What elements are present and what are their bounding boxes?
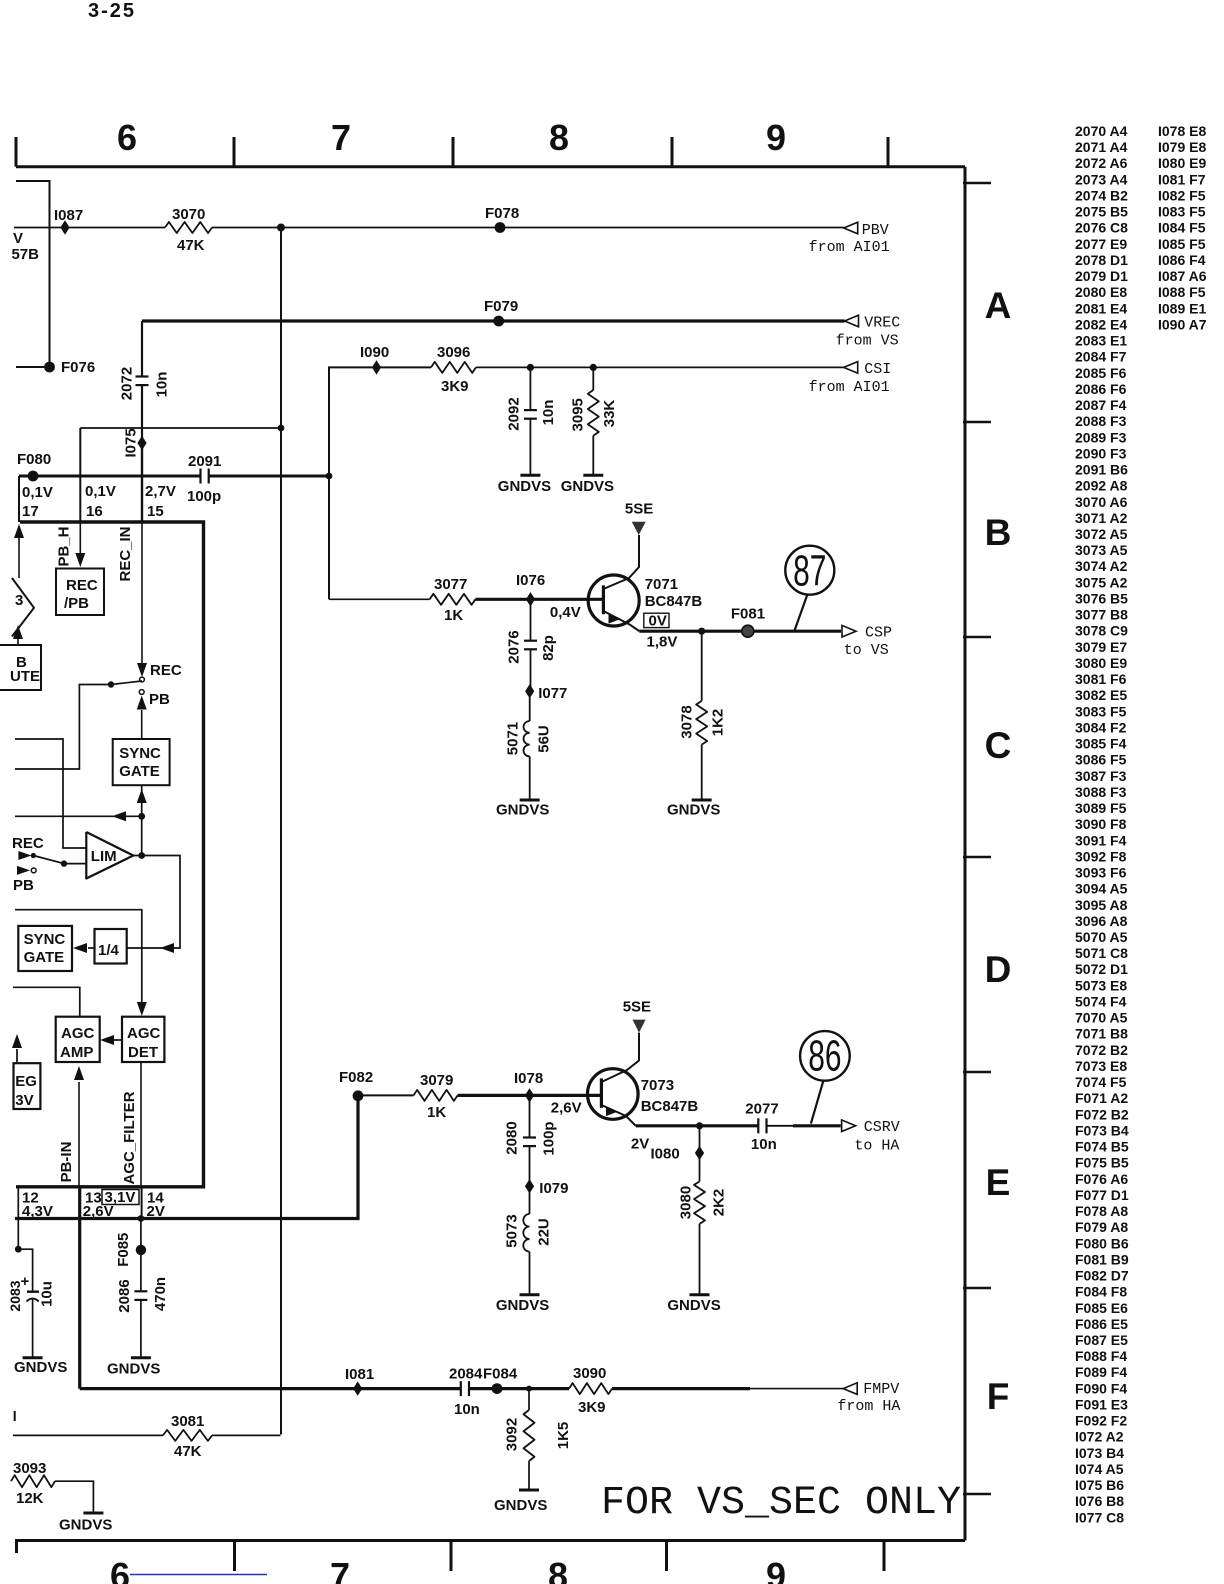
svg-text:to VS: to VS (844, 642, 889, 659)
svg-text:I082 F5: I082 F5 (1158, 187, 1206, 203)
svg-text:1,8V: 1,8V (647, 634, 678, 651)
svg-text:10n: 10n (540, 400, 557, 426)
svg-text:2091: 2091 (188, 453, 221, 470)
capacitor 2072 10n (141, 321, 143, 377)
resistor 3079 1K (414, 1090, 458, 1101)
wire pin15 REC_IN (141, 443, 143, 522)
svg-text:I075 B6: I075 B6 (1075, 1477, 1124, 1493)
wire SYNC GATE input riser (141, 785, 143, 855)
resistor 3078 1K2 (701, 631, 703, 701)
svg-text:5SE: 5SE (625, 501, 653, 518)
svg-text:F071 A2: F071 A2 (1075, 1090, 1128, 1106)
svg-text:from HA: from HA (837, 1398, 900, 1415)
test point F084 (492, 1383, 503, 1394)
test point F076 (44, 362, 55, 373)
capacitor 2077 10n (757, 1118, 759, 1133)
svg-text:3V: 3V (15, 1092, 33, 1109)
svg-text:5SE: 5SE (623, 999, 651, 1016)
supply 5SE (7073) (633, 1020, 646, 1033)
svg-text:3089 F5: 3089 F5 (1075, 800, 1127, 816)
junction node 2086 branch (138, 1215, 145, 1222)
svg-text:10u: 10u (39, 1281, 56, 1307)
callout 87 (795, 595, 808, 631)
svg-text:F084 F8: F084 F8 (1075, 1284, 1127, 1300)
svg-text:GNDVS: GNDVS (498, 478, 551, 495)
svg-text:AGC_FILTER: AGC_FILTER (121, 1091, 138, 1184)
wire PBV to 3081 (vertical) (280, 228, 282, 1435)
svg-text:1K: 1K (444, 607, 463, 624)
IC block U outline (16, 522, 204, 1187)
svg-text:F076: F076 (61, 359, 95, 376)
svg-text:3096 A8: 3096 A8 (1075, 913, 1128, 929)
svg-text:AGC: AGC (61, 1025, 95, 1042)
svg-text:F: F (987, 1376, 1010, 1417)
svg-text:F091 E3: F091 E3 (1075, 1396, 1128, 1412)
svg-text:F076 A6: F076 A6 (1075, 1171, 1128, 1187)
svg-text:UTE: UTE (10, 668, 40, 685)
svg-text:3079 E7: 3079 E7 (1075, 639, 1127, 655)
svg-text:3079: 3079 (420, 1072, 453, 1089)
signal AGC_FILTER (140, 1062, 142, 1187)
svg-text:22U: 22U (536, 1218, 553, 1246)
svg-text:87: 87 (793, 546, 826, 595)
svg-text:I090 A7: I090 A7 (1158, 316, 1207, 332)
svg-text:3082 E5: 3082 E5 (1075, 687, 1127, 703)
svg-text:3081 F6: 3081 F6 (1075, 671, 1127, 687)
svg-text:3078: 3078 (679, 705, 696, 738)
svg-text:3090: 3090 (573, 1365, 606, 1382)
svg-text:10n: 10n (154, 372, 171, 398)
block SYNC GATE upper (113, 739, 170, 785)
svg-text:CSP: CSP (865, 625, 892, 642)
svg-text:3095 A8: 3095 A8 (1075, 897, 1128, 913)
test point I079 (525, 1179, 534, 1193)
svg-text:I081 F7: I081 F7 (1158, 171, 1206, 187)
wire 7071 base (329, 598, 430, 600)
ground GNDVS 3095 (583, 474, 603, 477)
svg-text:F082: F082 (339, 1069, 373, 1086)
test point I087 (60, 220, 69, 234)
svg-text:2076: 2076 (505, 630, 522, 663)
voltage 0V boxed (644, 613, 669, 627)
svg-text:F073 B4: F073 B4 (1075, 1122, 1129, 1138)
svg-text:I090: I090 (360, 344, 389, 361)
wire LIM output to 1/4 (127, 856, 180, 949)
test point F081 (742, 625, 754, 637)
svg-text:0,1V: 0,1V (22, 484, 53, 501)
wire LIM upper input (15, 739, 86, 848)
svg-text:SYNC: SYNC (119, 745, 161, 762)
svg-text:2077 E9: 2077 E9 (1075, 236, 1127, 252)
transistor 7073 BC847B (588, 1069, 639, 1120)
svg-text:V: V (13, 230, 23, 247)
wire CSRV output (636, 1124, 759, 1127)
svg-text:F074 B5: F074 B5 (1075, 1139, 1129, 1155)
svg-text:3084 F2: 3084 F2 (1075, 719, 1127, 735)
svg-text:2,7V: 2,7V (145, 483, 176, 500)
svg-text:AGC: AGC (127, 1025, 161, 1042)
svg-text:3078 C9: 3078 C9 (1075, 623, 1128, 639)
wire CSP output (639, 630, 841, 633)
resistor 3090 3K9 (569, 1383, 612, 1394)
test point F082 (353, 1090, 364, 1101)
supply 5SE (7071) (632, 522, 646, 535)
svg-text:2088 F3: 2088 F3 (1075, 413, 1127, 429)
inductor 5073 22U (529, 1186, 531, 1214)
svg-text:from VS: from VS (836, 333, 899, 350)
voltage 3,1V boxed (102, 1190, 139, 1205)
svg-text:3075 A2: 3075 A2 (1075, 574, 1128, 590)
svg-text:F079 A8: F079 A8 (1075, 1219, 1128, 1235)
svg-text:REC: REC (66, 577, 98, 594)
test point I090 (372, 360, 381, 374)
wire pin16 to PBV riser (80, 427, 281, 429)
test point F080 (28, 471, 39, 482)
svg-text:5071: 5071 (505, 722, 522, 755)
pin 14 (141, 1187, 143, 1219)
svg-text:F082 D7: F082 D7 (1075, 1268, 1129, 1284)
resistor 3070 47K (165, 222, 212, 233)
svg-text:6: 6 (110, 1555, 130, 1584)
svg-text:GNDVS: GNDVS (561, 478, 614, 495)
svg-text:2086 F6: 2086 F6 (1075, 381, 1127, 397)
svg-text:470n: 470n (152, 1277, 169, 1311)
wire PBV net (14, 227, 165, 229)
svg-text:17: 17 (22, 503, 39, 520)
svg-text:3074 A2: 3074 A2 (1075, 558, 1128, 574)
capacitor 2076 82p (530, 599, 532, 640)
svg-text:5073: 5073 (504, 1214, 521, 1247)
svg-text:GNDVS: GNDVS (494, 1497, 547, 1514)
svg-text:A: A (985, 285, 1012, 326)
svg-text:I077 C8: I077 C8 (1075, 1509, 1124, 1525)
svg-text:F081: F081 (731, 606, 765, 623)
svg-text:F086 E5: F086 E5 (1075, 1316, 1128, 1332)
svg-text:3080: 3080 (678, 1186, 695, 1219)
svg-text:PB: PB (13, 877, 34, 894)
svg-text:2084: 2084 (449, 1366, 483, 1383)
svg-text:I072 A2: I072 A2 (1075, 1429, 1124, 1445)
svg-text:100p: 100p (187, 488, 221, 505)
svg-text:PB: PB (149, 691, 170, 708)
svg-text:2072 A6: 2072 A6 (1075, 155, 1128, 171)
svg-text:PB_H: PB_H (56, 526, 73, 566)
svg-text:3094 A5: 3094 A5 (1075, 881, 1128, 897)
svg-text:5073 E8: 5073 E8 (1075, 977, 1127, 993)
svg-text:2083: 2083 (7, 1280, 23, 1311)
junction node riser/left port (138, 813, 145, 820)
svg-text:CSRV: CSRV (864, 1119, 900, 1136)
svg-text:2080: 2080 (504, 1121, 521, 1154)
wire left port with arrow (15, 815, 142, 817)
svg-text:3071 A2: 3071 A2 (1075, 510, 1128, 526)
svg-text:3K9: 3K9 (578, 1399, 606, 1416)
svg-text:3095: 3095 (569, 398, 586, 431)
capacitor 2083 10u (15, 1246, 22, 1253)
svg-text:C: C (985, 725, 1012, 766)
svg-text:86: 86 (808, 1031, 841, 1080)
svg-text:0,4V: 0,4V (550, 604, 581, 621)
junction node PBV/3081 riser (277, 224, 285, 232)
connector FMPV from HA (843, 1383, 857, 1395)
svg-text:2086: 2086 (116, 1279, 133, 1312)
svg-text:2091 B6: 2091 B6 (1075, 462, 1128, 478)
resistor 3081 47K (14, 1411, 16, 1421)
svg-text:GNDVS: GNDVS (59, 1517, 112, 1534)
svg-text:3096: 3096 (437, 344, 470, 361)
svg-text:16: 16 (86, 503, 103, 520)
ground GNDVS 3093 (83, 1512, 103, 1515)
svg-text:47K: 47K (177, 237, 205, 254)
svg-text:GATE: GATE (24, 949, 65, 966)
connector PBV from AI01 (844, 222, 858, 234)
svg-text:7071 B8: 7071 B8 (1075, 1026, 1128, 1042)
svg-text:8: 8 (549, 117, 569, 158)
svg-text:0V: 0V (649, 613, 667, 630)
svg-text:15: 15 (147, 503, 164, 520)
test point F085 (140, 1219, 142, 1292)
block REC/PB (56, 569, 104, 616)
junction node 3078 (698, 628, 705, 635)
svg-text:F088 F4: F088 F4 (1075, 1348, 1127, 1364)
ground GNDVS 3078 (692, 799, 712, 802)
svg-text:3090 F8: 3090 F8 (1075, 816, 1127, 832)
svg-text:3-25: 3-25 (88, 0, 136, 22)
svg-text:I080 E9: I080 E9 (1158, 155, 1206, 171)
svg-text:3077 B8: 3077 B8 (1075, 607, 1128, 623)
capacitor 2080 100p (529, 1095, 531, 1137)
svg-text:F090 F4: F090 F4 (1075, 1380, 1127, 1396)
svg-text:F080: F080 (17, 451, 51, 468)
wire 1/4 to SYNC GATE lower (88, 947, 95, 949)
svg-text:I084 F5: I084 F5 (1158, 220, 1206, 236)
svg-text:BC847B: BC847B (645, 593, 703, 610)
svg-text:3086 F5: 3086 F5 (1075, 752, 1127, 768)
wire SYNC GATE to PB contact (141, 710, 143, 739)
pin 16 PB_H (79, 428, 81, 522)
svg-text:5070 A5: 5070 A5 (1075, 929, 1128, 945)
svg-text:I081: I081 (345, 1366, 374, 1383)
svg-text:7073: 7073 (641, 1077, 674, 1094)
svg-text:SYNC: SYNC (24, 931, 66, 948)
svg-text:GNDVS: GNDVS (107, 1361, 160, 1378)
svg-text:I075: I075 (123, 428, 140, 457)
block AGC DET (122, 1017, 164, 1062)
svg-text:REC_IN: REC_IN (117, 526, 134, 581)
svg-text:PBV: PBV (862, 222, 889, 239)
resistor 3092 1K5 (526, 1386, 532, 1392)
svg-text:GNDVS: GNDVS (667, 1297, 720, 1314)
svg-text:2076 C8: 2076 C8 (1075, 220, 1128, 236)
svg-text:5071 C8: 5071 C8 (1075, 945, 1128, 961)
svg-text:6: 6 (117, 117, 137, 158)
svg-text:I089 E1: I089 E1 (1158, 300, 1206, 316)
svg-text:2071 A4: 2071 A4 (1075, 139, 1128, 155)
svg-text:B: B (985, 512, 1012, 553)
wire REG riser (16, 1049, 18, 1063)
junction node 2091/CSI riser (326, 473, 333, 480)
svg-text:2080 E8: 2080 E8 (1075, 284, 1127, 300)
svg-text:10n: 10n (751, 1136, 777, 1153)
test point F078 (495, 222, 506, 233)
svg-text:8: 8 (548, 1555, 568, 1584)
svg-text:GNDVS: GNDVS (496, 802, 549, 819)
svg-text:I083 F5: I083 F5 (1158, 204, 1206, 220)
svg-text:2087 F4: 2087 F4 (1075, 397, 1127, 413)
arrow into PB MUTE (17, 639, 19, 645)
callout 86 (811, 1081, 824, 1124)
svg-text:I076 B8: I076 B8 (1075, 1493, 1124, 1509)
svg-text:I088 F5: I088 F5 (1158, 284, 1206, 300)
ground GNDVS 2086 (131, 1356, 151, 1359)
svg-text:2085 F6: 2085 F6 (1075, 365, 1127, 381)
svg-text:3081: 3081 (171, 1413, 204, 1430)
svg-text:0,1V: 0,1V (85, 483, 116, 500)
svg-text:10n: 10n (454, 1401, 480, 1418)
svg-text:I077: I077 (538, 685, 567, 702)
svg-text:3083 F5: 3083 F5 (1075, 703, 1127, 719)
svg-text:I076: I076 (516, 572, 545, 589)
ground GNDVS 3092 (519, 1489, 539, 1492)
wire CSI net (329, 367, 431, 599)
block 1/4 (95, 929, 127, 964)
svg-text:LIM: LIM (91, 848, 117, 865)
svg-text:2082 E4: 2082 E4 (1075, 316, 1127, 332)
signal PB-IN (78, 1082, 80, 1187)
svg-text:AMP: AMP (60, 1044, 93, 1061)
capacitor 2092 10n (529, 367, 531, 410)
svg-text:I087 A6: I087 A6 (1158, 268, 1207, 284)
svg-text:I078 E8: I078 E8 (1158, 123, 1206, 139)
wire switch pole out (15, 685, 111, 770)
svg-text:2074 B2: 2074 B2 (1075, 187, 1128, 203)
svg-text:1K: 1K (427, 1104, 446, 1121)
wire AGC DET to AGC AMP (112, 1039, 122, 1041)
resistor 3077 1K (430, 594, 476, 605)
svg-text:82p: 82p (540, 635, 557, 661)
svg-text:2070 A4: 2070 A4 (1075, 123, 1128, 139)
svg-text:2077: 2077 (745, 1100, 778, 1117)
block REG 3V (cut) (14, 1063, 41, 1109)
svg-text:3092: 3092 (504, 1418, 521, 1451)
svg-text:9: 9 (766, 117, 786, 158)
svg-text:2079 D1: 2079 D1 (1075, 268, 1128, 284)
ground GNDVS 3080 (690, 1293, 710, 1296)
wire FMPV net (80, 1387, 461, 1390)
svg-text:I078: I078 (514, 1070, 543, 1087)
svg-text:5074 F4: 5074 F4 (1075, 993, 1127, 1009)
svg-text:2K2: 2K2 (710, 1189, 727, 1217)
block SYNC GATE lower (18, 926, 72, 971)
wire VREC net (142, 319, 845, 322)
svg-text:2078 D1: 2078 D1 (1075, 252, 1128, 268)
wire 7073 base (358, 1094, 414, 1096)
svg-text:2084 F7: 2084 F7 (1075, 349, 1127, 365)
svg-text:PB-IN: PB-IN (58, 1142, 75, 1183)
block PB MUTE (cut) (0, 645, 41, 690)
wire F076 stub (16, 181, 50, 367)
svg-text:1/4: 1/4 (98, 942, 120, 959)
ground GNDVS 5073 (520, 1293, 540, 1296)
svg-text:7: 7 (331, 117, 351, 158)
op-amp LIM (86, 832, 133, 879)
svg-text:2081 E4: 2081 E4 (1075, 300, 1127, 316)
svg-text:I079 E8: I079 E8 (1158, 139, 1206, 155)
test point I077 (525, 684, 534, 698)
svg-text:12K: 12K (16, 1490, 44, 1507)
svg-text:VREC: VREC (864, 315, 900, 332)
svg-text:F084: F084 (483, 1366, 518, 1383)
svg-text:GNDVS: GNDVS (496, 1297, 549, 1314)
junction node 2092 (527, 364, 534, 371)
svg-text:3088 F3: 3088 F3 (1075, 784, 1127, 800)
svg-text:3070 A6: 3070 A6 (1075, 494, 1128, 510)
svg-text:3077: 3077 (434, 576, 467, 593)
svg-text:E: E (986, 1162, 1011, 1203)
svg-text:3K9: 3K9 (441, 378, 469, 395)
svg-text:I079: I079 (539, 1180, 568, 1197)
svg-text:F085 E6: F085 E6 (1075, 1300, 1128, 1316)
svg-text:CSI: CSI (864, 361, 891, 378)
test point I075 (137, 436, 146, 450)
svg-text:7: 7 (330, 1555, 350, 1584)
svg-text:GATE: GATE (119, 763, 160, 780)
svg-text:D: D (985, 949, 1012, 990)
svg-text:3080 E9: 3080 E9 (1075, 655, 1127, 671)
connector CSRV to HA (842, 1120, 856, 1132)
svg-text:5072 D1: 5072 D1 (1075, 961, 1128, 977)
svg-text:F079: F079 (484, 298, 518, 315)
svg-text:7071: 7071 (645, 576, 678, 593)
svg-text:REC: REC (150, 662, 182, 679)
resistor 3080 2K2 (694, 1181, 705, 1224)
svg-text:F075 B5: F075 B5 (1075, 1155, 1129, 1171)
svg-text:I080: I080 (651, 1146, 680, 1163)
svg-text:2089 F3: 2089 F3 (1075, 429, 1127, 445)
svg-text:BC847B: BC847B (641, 1098, 699, 1115)
svg-text:F092 F2: F092 F2 (1075, 1413, 1127, 1429)
svg-text:from AI01: from AI01 (809, 239, 890, 256)
inductor 5071 56U (529, 691, 531, 721)
svg-text:REC: REC (12, 835, 44, 852)
junction node 3095 (590, 364, 597, 371)
svg-text:56U: 56U (536, 725, 553, 753)
pin 13 riser (78, 1187, 81, 1389)
svg-text:7074 F5: 7074 F5 (1075, 1074, 1127, 1090)
svg-text:EG: EG (15, 1073, 37, 1090)
svg-text:FMPV: FMPV (863, 1381, 899, 1398)
svg-text:1K5: 1K5 (555, 1422, 572, 1450)
svg-text:F072 B2: F072 B2 (1075, 1106, 1129, 1122)
svg-text:F081 B9: F081 B9 (1075, 1251, 1129, 1267)
svg-text:I074 A5: I074 A5 (1075, 1461, 1124, 1477)
svg-text:3,1V: 3,1V (105, 1189, 136, 1206)
svg-text:3093 F6: 3093 F6 (1075, 865, 1127, 881)
svg-text:2075 B5: 2075 B5 (1075, 204, 1128, 220)
transistor 7071 BC847B (588, 575, 639, 626)
svg-text:I086 F4: I086 F4 (1158, 252, 1206, 268)
svg-text:100p: 100p (540, 1121, 557, 1155)
junction node pin16/PBV riser (278, 425, 285, 432)
amp 3 (cut) (12, 578, 34, 637)
resistor 3095 33K (592, 367, 594, 390)
svg-text:3070: 3070 (172, 206, 205, 223)
svg-text:F085: F085 (115, 1233, 132, 1267)
svg-text:/PB: /PB (64, 595, 89, 612)
ground GNDVS 5071 (520, 799, 540, 802)
svg-text:1K2: 1K2 (710, 709, 727, 737)
svg-text:7070 A5: 7070 A5 (1075, 1010, 1128, 1026)
